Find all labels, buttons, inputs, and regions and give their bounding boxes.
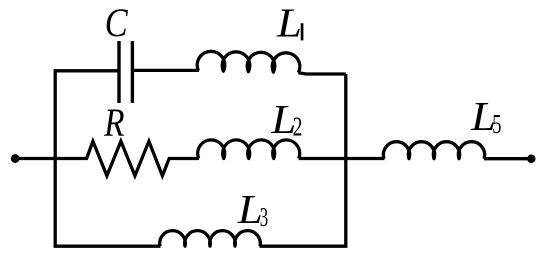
svg-text:R: R — [103, 100, 124, 145]
svg-text:3: 3 — [260, 202, 268, 232]
svg-text:C: C — [105, 0, 129, 45]
svg-text:5: 5 — [492, 109, 501, 139]
svg-text:2: 2 — [293, 112, 303, 142]
svg-text:L: L — [276, 0, 302, 45]
